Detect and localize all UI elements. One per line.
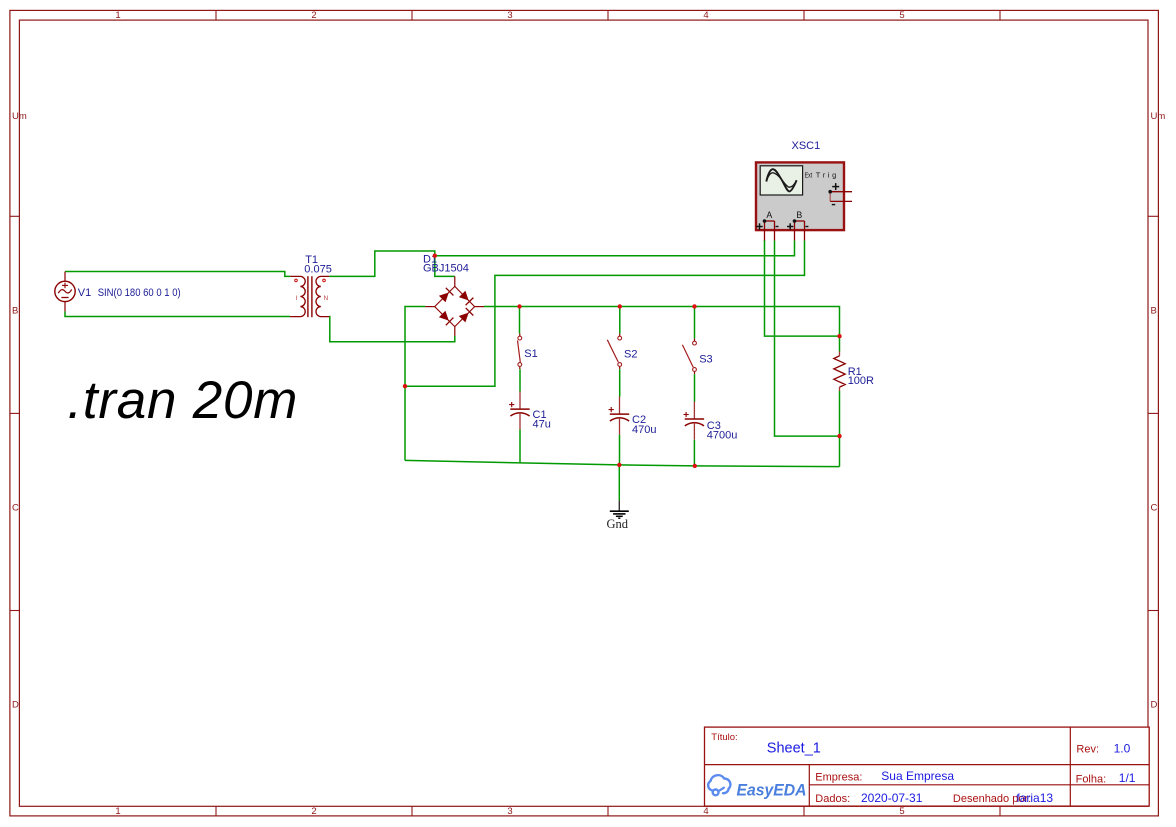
wire C3 to bottom rail	[693, 440, 695, 466]
wire S3 to C3	[694, 374, 696, 401]
capacitor C3	[684, 401, 705, 439]
svg-text:Gnd: Gnd	[607, 517, 629, 531]
scope trig plus sign	[832, 183, 839, 190]
svg-text:5: 5	[899, 10, 904, 21]
svg-text:.tran 20m: .tran 20m	[67, 371, 297, 430]
capacitor C1	[509, 392, 530, 430]
wire scope A+ to R1 top	[765, 240, 840, 336]
svg-text:Um: Um	[12, 111, 27, 122]
frame column labels 1-5 bottom	[115, 806, 904, 817]
wire D1 plus to top bus	[484, 307, 840, 352]
svg-text:5: 5	[899, 806, 904, 817]
wire bottom rail	[405, 460, 840, 466]
capacitor C2	[609, 397, 630, 435]
title block frame	[705, 727, 1150, 806]
frame column ticks	[216, 10, 1000, 816]
svg-text:1: 1	[115, 806, 120, 817]
svg-text:1: 1	[115, 10, 120, 21]
svg-text:Folha:: Folha:	[1076, 774, 1107, 786]
svg-text:Rev:: Rev:	[1076, 744, 1099, 756]
wire S3 branch top	[694, 307, 696, 339]
scope trig pin and leads	[828, 190, 852, 205]
svg-text:Ext: Ext	[805, 171, 813, 180]
wire C2 to bottom rail	[619, 435, 621, 465]
svg-text:S2: S2	[624, 348, 637, 360]
svg-text:S3: S3	[699, 354, 712, 366]
svg-text:D: D	[12, 700, 19, 711]
svg-text:Sheet_1: Sheet_1	[767, 740, 821, 756]
wire S1 branch top	[519, 307, 521, 334]
svg-text:A: A	[766, 210, 772, 220]
frame row labels left	[12, 111, 27, 711]
svg-text:3: 3	[507, 806, 512, 817]
svg-text:C: C	[1151, 503, 1158, 514]
svg-text:faria13: faria13	[1016, 791, 1053, 805]
wire scope B+ to D1 AC tap	[435, 240, 795, 255]
wire scope B- to minus node	[405, 240, 805, 386]
wire T1 secondary bottom to D1 AC bottom	[329, 317, 455, 342]
svg-text:B: B	[796, 210, 802, 220]
voltage source V1	[55, 272, 75, 312]
wire minus node down to bottom rail	[404, 386, 406, 460]
svg-text:0.075: 0.075	[304, 263, 332, 275]
switch S2	[607, 334, 621, 370]
switch S3	[682, 339, 696, 375]
svg-text:1/1: 1/1	[1119, 771, 1136, 785]
svg-text:4: 4	[703, 10, 708, 21]
svg-text:Empresa:: Empresa:	[815, 771, 862, 783]
wire scope A+ pin lead	[764, 239, 766, 242]
wire S1 to C1	[519, 369, 521, 391]
svg-text:2020-07-31: 2020-07-31	[861, 791, 923, 805]
svg-text:C: C	[12, 503, 19, 514]
svg-text:2: 2	[311, 806, 316, 817]
svg-text:1.0: 1.0	[1114, 742, 1131, 756]
svg-text:SIN(0 180 60 0 1 0): SIN(0 180 60 0 1 0)	[98, 287, 181, 299]
frame row labels right	[1151, 111, 1166, 711]
wire C1 to bottom rail	[519, 430, 521, 463]
frame row ticks	[10, 216, 1159, 610]
wire D1 minus to node junction	[405, 307, 425, 387]
svg-text:Um: Um	[1151, 111, 1166, 122]
wire S2 to C2	[619, 369, 621, 396]
svg-text:S1: S1	[524, 348, 537, 360]
svg-text:GBJ1504: GBJ1504	[423, 262, 469, 274]
svg-text:Dados:: Dados:	[815, 793, 850, 805]
svg-text:Sua Empresa: Sua Empresa	[881, 769, 954, 783]
wire scope A- to R1 bottom	[775, 240, 840, 436]
svg-text:XSC1: XSC1	[792, 140, 821, 152]
transformer T1	[290, 276, 329, 317]
EasyEDA logo	[708, 775, 806, 799]
frame column labels 1-5 top	[115, 10, 904, 21]
svg-text:EasyEDA: EasyEDA	[737, 780, 807, 799]
svg-text:N: N	[324, 295, 329, 302]
wire V1 bottom to T1 primary bottom	[65, 311, 290, 316]
svg-text:47u: 47u	[533, 419, 551, 431]
svg-text:B: B	[12, 306, 18, 317]
resistor R1	[834, 351, 845, 391]
svg-text:3: 3	[507, 10, 512, 21]
wire R1 bottom column	[839, 391, 841, 467]
wire S2 branch top	[619, 307, 621, 334]
svg-text:100R: 100R	[848, 375, 874, 387]
wire ground stem	[618, 465, 620, 501]
svg-text:4700u: 4700u	[707, 430, 738, 442]
ground Gnd	[610, 500, 629, 518]
svg-text:2: 2	[311, 10, 316, 21]
svg-text:D: D	[1151, 700, 1158, 711]
oscilloscope XSC1 body	[756, 162, 844, 230]
svg-text:V1: V1	[78, 287, 91, 299]
junction dots	[403, 254, 842, 469]
svg-text:4: 4	[703, 806, 708, 817]
svg-text:I: I	[296, 295, 298, 302]
svg-text:470u: 470u	[632, 424, 656, 436]
wire V1 top to T1 primary top	[65, 272, 290, 277]
svg-text:Título:: Título:	[711, 732, 737, 743]
scope channel B pins	[787, 219, 808, 240]
scope channel A pins	[756, 219, 778, 240]
bridge rectifier D1	[425, 276, 484, 336]
wire T1 secondary top to D1 AC top	[329, 251, 455, 276]
switch S1	[518, 334, 522, 370]
svg-text:B: B	[1151, 306, 1157, 317]
